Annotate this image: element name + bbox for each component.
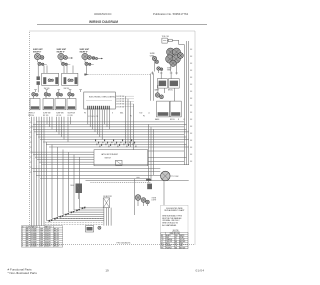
svg-text:BROWN: BROWN (180, 241, 186, 243)
svg-text:22: 22 (30, 167, 32, 169)
svg-text:BK-18: BK-18 (54, 229, 59, 231)
svg-text:WHITE: WHITE (180, 235, 185, 237)
svg-text:VT: VT (175, 239, 177, 241)
svg-text:ALL HEAT AREAS.: ALL HEAT AREAS. (162, 224, 177, 227)
svg-text:SURF SW: SURF SW (68, 112, 76, 114)
svg-text:BK: BK (190, 63, 192, 65)
svg-text:WH: WH (175, 235, 177, 237)
svg-text:316080: 316080 (31, 241, 37, 243)
svg-text:BK-18: BK-18 (54, 231, 59, 233)
svg-text:TN: TN (175, 245, 177, 247)
svg-text:BROIL: BROIL (168, 90, 173, 92)
svg-text:Publication No. 5995417762: Publication No. 5995417762 (153, 12, 189, 16)
svg-text:19: 19 (105, 269, 109, 273)
svg-text:LF 120: LF 120 (56, 115, 61, 117)
svg-text:BK-18: BK-18 (54, 241, 59, 243)
svg-text:315678: 315678 (45, 231, 51, 233)
svg-text:BROIL: BROIL (170, 119, 175, 121)
svg-text:BK-18: BK-18 (54, 243, 59, 245)
svg-text:22: 22 (30, 162, 32, 164)
svg-text:SW 240: SW 240 (64, 88, 70, 90)
svg-text:7: 7 (22, 241, 23, 243)
svg-text:YELLOW: YELLOW (166, 241, 173, 243)
svg-text:L2: L2 (183, 119, 185, 121)
svg-text:DOOR SW: DOOR SW (116, 101, 124, 103)
svg-text:BK-18: BK-18 (54, 239, 59, 241)
svg-text:316080: 316080 (31, 235, 37, 237)
svg-text:RED: RED (166, 237, 169, 239)
svg-text:WIRING DIAGRAM: WIRING DIAGRAM (89, 20, 118, 24)
svg-text:GREEN: GREEN (166, 245, 171, 247)
svg-text:DOOR SW: DOOR SW (116, 104, 124, 106)
svg-text:SURF SW: SURF SW (43, 112, 51, 114)
svg-text:315678: 315678 (45, 241, 51, 243)
svg-text:RF 120: RF 120 (43, 115, 48, 117)
svg-text:315678: 315678 (45, 243, 51, 245)
svg-text:1 2 3 4 5 6 7 8: 1 2 3 4 5 6 7 8 (88, 116, 98, 118)
svg-text:22: 22 (30, 132, 32, 134)
svg-text:OVEN LT: OVEN LT (28, 112, 35, 114)
svg-text:BK: BK (190, 161, 192, 163)
svg-text:BK: BK (190, 98, 192, 100)
svg-text:LATCH MOTOR ASSY: LATCH MOTOR ASSY (101, 153, 119, 156)
svg-text:8: 8 (22, 243, 23, 245)
svg-text:PINK: PINK (180, 243, 183, 245)
svg-text:316080: 316080 (31, 233, 37, 235)
svg-text:P/N 316080291: P/N 316080291 (117, 243, 132, 245)
svg-text:REPLACEMENT CHART: REPLACEMENT CHART (164, 209, 185, 212)
svg-text:315678: 315678 (45, 235, 51, 237)
svg-text:ELECTRONIC OVEN CONTROL: ELECTRONIC OVEN CONTROL (89, 97, 116, 99)
svg-text:BLUE: BLUE (166, 243, 170, 245)
svg-text:N: N (178, 119, 179, 121)
svg-text:BK: BK (161, 235, 163, 237)
svg-text:BK-18: BK-18 (54, 233, 59, 235)
svg-text:BK: BK (190, 49, 192, 51)
svg-text:BK-18: BK-18 (54, 235, 59, 237)
svg-text:4: 4 (22, 235, 23, 237)
svg-text:BK: BK (190, 77, 192, 79)
svg-text:315678: 315678 (45, 229, 51, 231)
svg-text:SURF SW: SURF SW (56, 112, 64, 114)
svg-text:P2: P2 (143, 115, 145, 117)
svg-text:BK: BK (190, 140, 192, 142)
svg-text:P1: P1 (130, 115, 132, 117)
svg-text:BK: BK (190, 133, 192, 135)
svg-text:WIRE COLOR: WIRE COLOR (170, 233, 181, 235)
svg-text:BK: BK (190, 56, 192, 58)
svg-text:316080: 316080 (31, 231, 37, 233)
svg-text:316080: 316080 (31, 237, 37, 239)
svg-text:SWITCH: SWITCH (105, 158, 112, 160)
svg-text:BK: BK (190, 112, 192, 114)
svg-text:22: 22 (30, 127, 32, 129)
svg-text:BK: BK (190, 147, 192, 149)
svg-text:DOOR SW: DOOR SW (116, 106, 124, 108)
svg-text:BROWN: BROWN (180, 247, 186, 249)
svg-text:315678: 315678 (45, 233, 51, 235)
svg-text:BK: BK (190, 91, 192, 93)
svg-text:BU: BU (161, 243, 163, 245)
svg-text:316080: 316080 (31, 239, 37, 241)
svg-text:6: 6 (22, 239, 23, 241)
svg-text:BK: BK (190, 154, 192, 156)
svg-text:DLB: DLB (71, 185, 74, 187)
svg-text:1: 1 (22, 229, 23, 231)
svg-text:BK: BK (190, 84, 192, 86)
svg-text:3: 3 (22, 233, 23, 235)
svg-text:316080: 316080 (31, 246, 37, 248)
svg-text:SW-RF 8": SW-RF 8" (80, 51, 88, 53)
svg-text:GN: GN (161, 245, 163, 247)
svg-text:PURPLE: PURPLE (166, 247, 172, 249)
svg-text:BK: BK (190, 119, 192, 121)
svg-text:22: 22 (30, 172, 32, 174)
svg-text:22: 22 (30, 122, 32, 124)
svg-text:315678: 315678 (45, 237, 51, 239)
svg-text:PK: PK (175, 243, 177, 245)
svg-text:P3: P3 (84, 113, 86, 115)
svg-text:BN: BN (175, 241, 177, 243)
svg-text:DOOR SW: DOOR SW (116, 96, 124, 98)
svg-text:22: 22 (30, 157, 32, 159)
svg-text:BK-18: BK-18 (54, 246, 59, 248)
svg-text:* Non-Illustrated Parts: * Non-Illustrated Parts (8, 271, 38, 275)
svg-text:BK: BK (190, 126, 192, 128)
svg-text:MDL: MDL (120, 112, 123, 114)
svg-text:DOOR SW: DOOR SW (116, 99, 124, 101)
svg-text:5: 5 (22, 237, 23, 239)
svg-text:GY: GY (175, 237, 177, 239)
svg-text:9: 9 (22, 246, 23, 248)
svg-text:315678: 315678 (45, 246, 51, 248)
svg-text:LR 120: LR 120 (68, 115, 73, 117)
svg-text:316080: 316080 (31, 229, 37, 231)
svg-text:L1: L1 (148, 113, 150, 115)
svg-text:SW-RF 8": SW-RF 8" (33, 51, 41, 53)
svg-text:22: 22 (30, 142, 32, 144)
svg-text:316080: 316080 (31, 243, 37, 245)
svg-text:YL: YL (161, 241, 163, 243)
svg-text:22: 22 (30, 137, 32, 139)
svg-text:BN: BN (175, 247, 177, 249)
svg-text:22: 22 (30, 147, 32, 149)
svg-text:22: 22 (30, 152, 32, 154)
svg-text:RD: RD (161, 237, 163, 239)
svg-text:BK: BK (190, 70, 192, 72)
svg-text:PR: PR (161, 247, 163, 249)
svg-text:OR: OR (161, 239, 163, 241)
svg-text:BK: BK (190, 105, 192, 107)
svg-text:01/04: 01/04 (196, 269, 205, 273)
svg-text:VIOLET: VIOLET (180, 239, 185, 241)
svg-text:315678: 315678 (45, 239, 51, 241)
svg-text:SW 240: SW 240 (28, 115, 34, 117)
svg-text:2: 2 (22, 231, 23, 233)
svg-text:LIGHT: LIGHT (152, 200, 157, 202)
svg-text:3202F/N2CCC: 3202F/N2CCC (94, 12, 112, 16)
svg-text:SW-RF 8": SW-RF 8" (57, 51, 65, 53)
svg-text:BK-18: BK-18 (54, 237, 59, 239)
